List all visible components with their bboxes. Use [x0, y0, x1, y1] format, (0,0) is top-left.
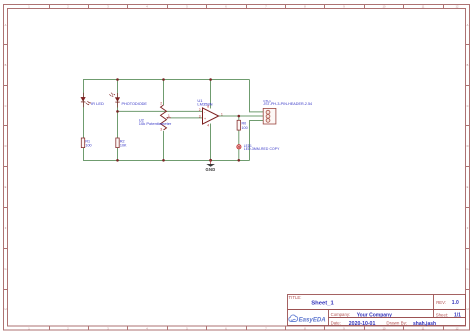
svg-text:A: A: [5, 23, 7, 27]
svg-text:JST-PH-3-PIN-HEADER-2.54: JST-PH-3-PIN-HEADER-2.54: [263, 102, 312, 106]
svg-text:+: +: [204, 117, 206, 121]
svg-text:EasyEDA: EasyEDA: [299, 316, 326, 323]
svg-text:F: F: [467, 226, 469, 230]
svg-text:3: 3: [160, 127, 162, 131]
svg-text:Sheet_1: Sheet_1: [311, 300, 334, 306]
svg-text:E: E: [5, 185, 7, 189]
svg-text:H: H: [5, 307, 7, 311]
svg-text:G: G: [4, 267, 6, 271]
svg-text:100: 100: [242, 126, 248, 130]
svg-text:A: A: [467, 23, 469, 27]
svg-text:B: B: [5, 63, 7, 67]
svg-text:Sheet:: Sheet:: [436, 313, 448, 318]
svg-text:3: 3: [107, 5, 109, 9]
svg-text:Drawn By:: Drawn By:: [386, 321, 407, 326]
svg-text:1: 1: [28, 5, 30, 9]
svg-text:2: 2: [67, 5, 69, 9]
svg-text:100: 100: [85, 143, 91, 147]
svg-text:2: 2: [160, 102, 162, 106]
svg-text:B: B: [467, 63, 469, 67]
svg-text:1: 1: [168, 114, 170, 118]
svg-text:7: 7: [265, 5, 267, 9]
svg-text:TITLE:: TITLE:: [289, 295, 302, 300]
svg-text:10: 10: [383, 5, 386, 9]
svg-text:1: 1: [221, 112, 223, 116]
svg-text:12: 12: [456, 5, 459, 9]
svg-text:LM358N: LM358N: [197, 101, 212, 106]
svg-text:PHOTODIODE: PHOTODIODE: [122, 102, 148, 106]
svg-text:F: F: [5, 226, 7, 230]
svg-text:11: 11: [422, 5, 425, 9]
svg-text:H: H: [467, 307, 469, 311]
svg-text:Your Company: Your Company: [357, 312, 392, 318]
svg-text:10K: 10K: [120, 143, 127, 147]
svg-text:2020-10-01: 2020-10-01: [349, 321, 376, 327]
svg-text:4: 4: [146, 5, 148, 9]
svg-text:REV:: REV:: [436, 300, 446, 305]
svg-text:D: D: [5, 144, 7, 148]
svg-text:1/1: 1/1: [454, 313, 461, 319]
svg-text:4: 4: [207, 124, 209, 128]
svg-text:E: E: [467, 185, 469, 189]
svg-text:2: 2: [199, 108, 201, 112]
svg-text:5: 5: [186, 5, 188, 9]
svg-text:G: G: [466, 267, 468, 271]
svg-text:GND: GND: [206, 167, 216, 172]
svg-text:IR LED: IR LED: [91, 101, 104, 106]
svg-text:Company:: Company:: [331, 312, 351, 317]
svg-text:C: C: [5, 104, 7, 108]
svg-text:shah.jash: shah.jash: [413, 321, 436, 327]
svg-text:6: 6: [225, 5, 227, 9]
svg-text:9: 9: [343, 5, 345, 9]
svg-text:C: C: [467, 104, 469, 108]
svg-text:1.0: 1.0: [452, 300, 459, 306]
svg-text:3: 3: [199, 115, 201, 119]
svg-text:8: 8: [304, 5, 306, 9]
svg-text:LED-3MM-RED COPY: LED-3MM-RED COPY: [244, 147, 280, 151]
svg-text:10k Potentiometer: 10k Potentiometer: [139, 121, 172, 126]
svg-text:D: D: [467, 144, 469, 148]
svg-text:Date:: Date:: [331, 321, 341, 326]
